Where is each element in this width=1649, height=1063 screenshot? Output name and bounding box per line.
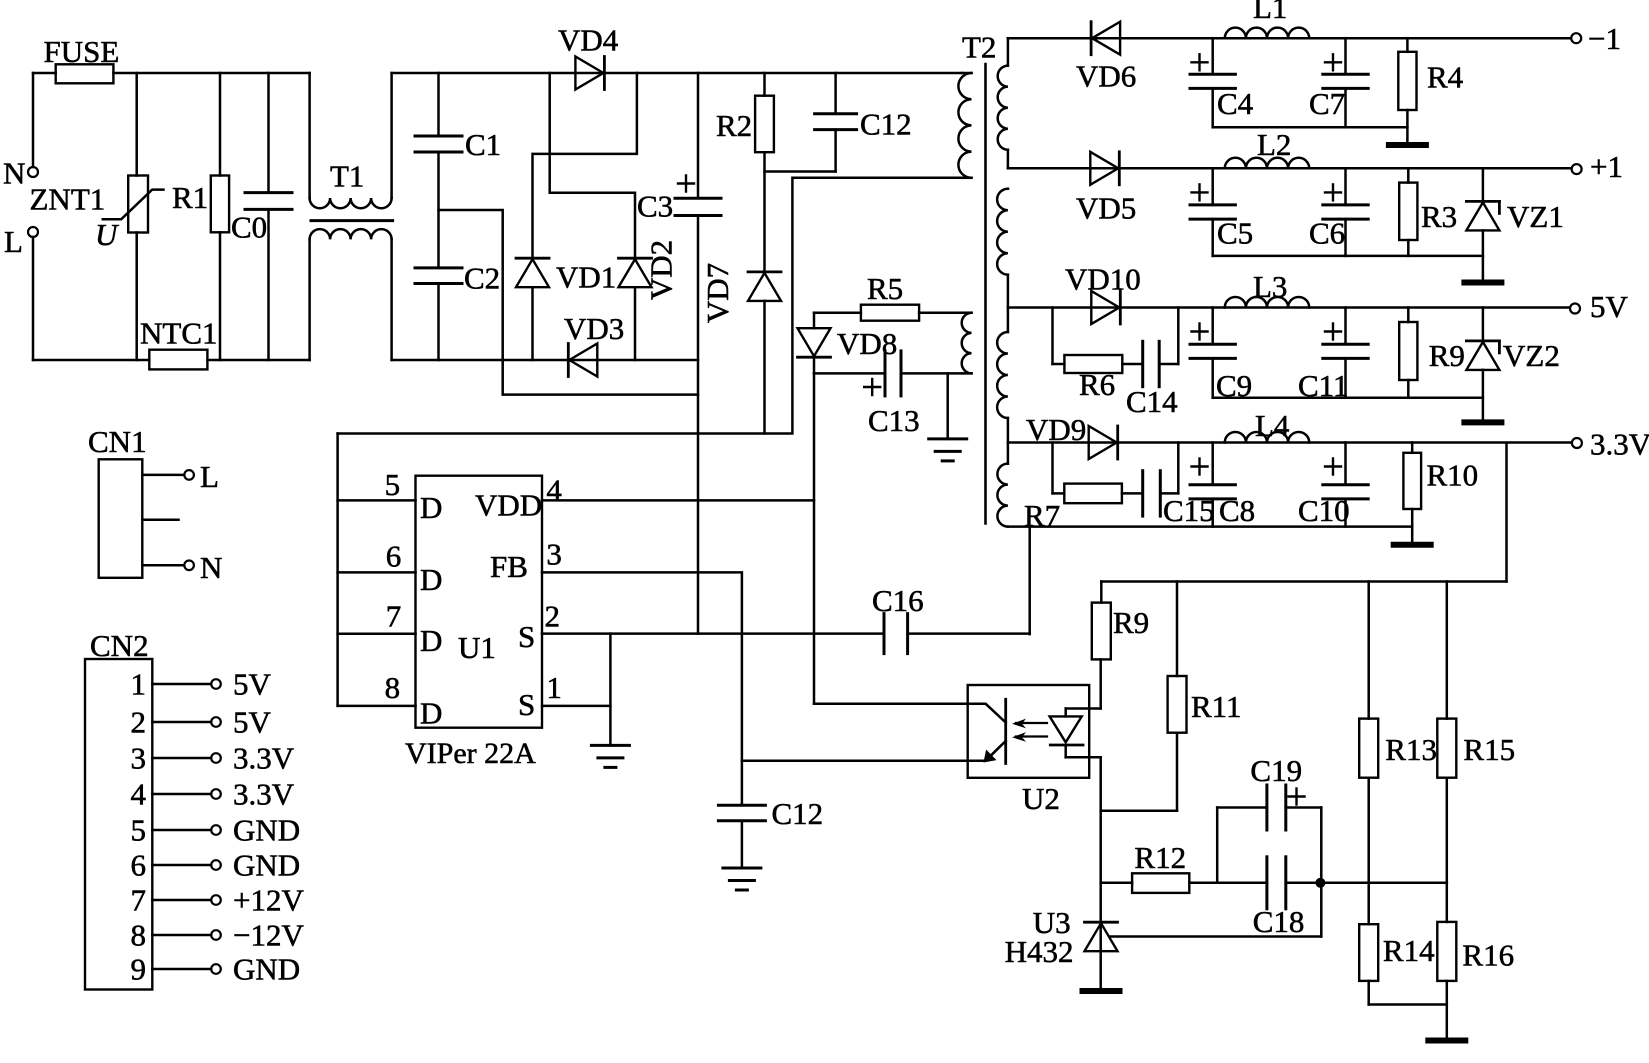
pin 3 label	[546, 537, 562, 572]
diode VD4	[558, 23, 619, 90]
svg-text:5V: 5V	[1590, 289, 1629, 324]
capacitor C12 (feedback filter)	[718, 796, 823, 868]
wire: snubber bottom	[765, 170, 836, 173]
IC U1 VIPer22A	[405, 476, 542, 770]
capacitor C2	[415, 261, 500, 361]
capacitor C11	[1298, 308, 1368, 404]
resistor R15	[1437, 582, 1515, 883]
svg-text:R5: R5	[867, 271, 903, 306]
svg-text:GND: GND	[233, 848, 300, 883]
svg-text:8: 8	[385, 670, 401, 705]
svg-text:R6: R6	[1079, 367, 1115, 402]
ground (row1)	[1389, 142, 1426, 148]
capacitor C8	[1190, 443, 1255, 529]
svg-text:R2: R2	[716, 108, 752, 143]
terminal L (AC input)	[4, 224, 38, 360]
svg-text:CN2: CN2	[90, 628, 149, 663]
resistor R2	[716, 73, 774, 272]
svg-text:VDD: VDD	[475, 488, 542, 523]
terminal +1 output	[1572, 149, 1623, 184]
svg-text:L: L	[200, 459, 219, 494]
svg-text:VD1: VD1	[556, 260, 616, 295]
diode VD10	[1065, 262, 1141, 325]
resistor R11	[1101, 582, 1242, 811]
wire: AC top rail	[33, 72, 310, 75]
svg-text:VD8: VD8	[837, 326, 897, 361]
wire: AC bottom rail	[33, 359, 310, 362]
shunt regulator U3 H432	[1005, 905, 1322, 969]
ground (aux winding)	[929, 373, 967, 461]
svg-text:N: N	[200, 550, 222, 585]
svg-text:T1: T1	[330, 159, 364, 194]
diode VD1	[516, 258, 616, 360]
optocoupler U2	[968, 685, 1101, 816]
transformer T2 primary winding	[958, 73, 971, 178]
svg-text:S: S	[518, 619, 535, 654]
diode VD2	[619, 240, 679, 360]
capacitor C7	[1309, 38, 1368, 127]
svg-text:C8: C8	[1219, 493, 1255, 528]
svg-text:VD2: VD2	[644, 240, 679, 300]
wire: row3 output rail	[1008, 306, 1570, 309]
ground (U1 source)	[591, 745, 629, 767]
svg-text:CN1: CN1	[88, 424, 147, 459]
svg-text:R11: R11	[1191, 689, 1242, 724]
transformer T2 core	[962, 30, 996, 524]
thermistor NTC1	[140, 316, 218, 370]
CN1 pin N	[142, 550, 222, 585]
node: feedback divider junction	[1315, 878, 1325, 888]
resistor R7	[1024, 443, 1122, 534]
svg-text:VZ1: VZ1	[1507, 199, 1564, 234]
svg-text:U1: U1	[458, 630, 496, 665]
wire: VD4 cathode to VD1 cathode	[533, 73, 637, 258]
svg-text:C16: C16	[872, 583, 924, 618]
terminal 3.3V output	[1572, 427, 1649, 462]
svg-text:R9: R9	[1429, 338, 1465, 373]
svg-text:R16: R16	[1462, 938, 1514, 973]
resistor R14	[1359, 883, 1447, 1005]
resistor R9 (optocoupler pull-up)	[1092, 582, 1149, 709]
svg-text:9: 9	[131, 952, 147, 987]
svg-text:C12: C12	[860, 107, 912, 142]
CN2 pin 8 (-12V)	[131, 918, 305, 953]
CN2 pin 5 (GND)	[131, 813, 301, 848]
svg-text:1: 1	[131, 667, 147, 702]
svg-text:FB: FB	[490, 549, 528, 584]
diode VD8	[798, 313, 898, 374]
wire: source (pin 1) to ground	[542, 634, 610, 746]
ground (R16)	[1428, 1038, 1465, 1044]
svg-text:VD7: VD7	[700, 263, 735, 323]
connector CN1	[88, 424, 147, 578]
svg-text:R1: R1	[172, 180, 208, 215]
resistor R4	[1398, 38, 1463, 145]
svg-text:C12: C12	[772, 796, 824, 831]
capacitor C19	[1217, 753, 1321, 937]
pin 5 label	[385, 467, 401, 502]
CN1 pin L	[142, 459, 219, 494]
wire: 3.3V sense tap	[1505, 443, 1508, 582]
wire: row3 bottom rail	[1213, 397, 1483, 400]
capacitor C10	[1298, 443, 1368, 529]
diode VD7	[700, 263, 781, 434]
inductor L3	[1225, 269, 1309, 308]
svg-text:7: 7	[131, 883, 147, 918]
svg-text:R13: R13	[1385, 732, 1437, 767]
CN2 pin 2 (5V)	[131, 705, 272, 740]
svg-text:3: 3	[131, 741, 147, 776]
svg-text:C14: C14	[1126, 384, 1178, 419]
resistor R12	[1101, 840, 1267, 893]
CN1 middle pin	[142, 519, 178, 522]
svg-text:VD10: VD10	[1065, 262, 1141, 297]
wire: row1 bottom rail	[1213, 126, 1408, 129]
diode VD9	[1026, 412, 1118, 459]
transformer T2 auxiliary winding	[962, 313, 972, 374]
svg-text:5V: 5V	[233, 705, 272, 740]
svg-text:N: N	[3, 155, 25, 190]
wire: drain bus (U1 D pins to transformer primary)	[338, 178, 962, 434]
wire: VD4 anode to VD2 cathode	[550, 73, 635, 258]
svg-text:VD3: VD3	[564, 311, 624, 346]
svg-text:U: U	[95, 217, 120, 252]
svg-text:C2: C2	[464, 261, 500, 296]
svg-text:GND: GND	[233, 952, 300, 987]
diode VD5	[1076, 152, 1136, 226]
pin 7 label	[386, 599, 402, 634]
zener diode VZ1	[1466, 168, 1563, 280]
svg-text:L1: L1	[1253, 0, 1287, 25]
terminal 5V output	[1570, 289, 1629, 324]
svg-text:NTC1: NTC1	[140, 316, 218, 351]
svg-text:4: 4	[546, 473, 562, 508]
svg-text:R4: R4	[1427, 60, 1464, 95]
wire: row2 bottom rail	[1213, 255, 1483, 258]
wire: secondary return to C16	[1028, 527, 1031, 635]
resistor R10	[1403, 443, 1478, 545]
resistor R6	[1053, 308, 1123, 403]
wire: 3.3V sense rail	[1101, 580, 1506, 583]
svg-text:C13: C13	[868, 403, 920, 438]
svg-text:R14: R14	[1383, 933, 1435, 968]
svg-text:VD6: VD6	[1076, 59, 1136, 94]
ground (row3)	[1464, 419, 1501, 425]
resistor R16	[1437, 883, 1514, 1041]
svg-text:VD9: VD9	[1026, 412, 1086, 447]
svg-text:C7: C7	[1309, 86, 1345, 121]
capacitor C12 (snubber)	[815, 73, 912, 172]
wire: FB (pin 3) to optocoupler and C12	[542, 572, 968, 805]
svg-text:5: 5	[131, 813, 147, 848]
wire: U2 collector input	[814, 703, 968, 706]
svg-text:D: D	[420, 623, 442, 658]
capacitor C5	[1190, 168, 1253, 256]
svg-text:R12: R12	[1134, 840, 1186, 875]
svg-text:GND: GND	[233, 813, 300, 848]
pin 6 label	[386, 539, 402, 574]
inductor L2	[1225, 127, 1309, 168]
wire: VDD (pin 4)	[542, 499, 814, 502]
capacitor C3	[637, 73, 721, 634]
capacitor C0	[231, 73, 292, 360]
svg-text:VZ2: VZ2	[1503, 338, 1560, 373]
svg-text:D: D	[420, 562, 442, 597]
svg-text:C10: C10	[1298, 493, 1350, 528]
wire: source (pin 2) line	[542, 632, 884, 635]
wire: row4 output rail	[1008, 441, 1572, 444]
capacitor C1	[415, 73, 501, 268]
ground (C12)	[723, 868, 761, 890]
transformer T2 secondary winding 2	[997, 189, 1008, 308]
svg-text:H432: H432	[1005, 934, 1074, 969]
svg-text:L: L	[4, 224, 23, 259]
capacitor C16	[872, 583, 1030, 654]
varistor ZNT1	[30, 73, 164, 360]
svg-text:C3: C3	[637, 189, 673, 224]
diode VD3	[564, 311, 624, 377]
svg-text:VD5: VD5	[1076, 191, 1136, 226]
svg-text:3: 3	[546, 537, 562, 572]
CN2 pin 9 (GND)	[131, 952, 301, 987]
svg-text:R3: R3	[1421, 199, 1457, 234]
wire: VDD feed (VD8 to U1 pin4 / U2)	[813, 373, 816, 703]
svg-text:FUSE: FUSE	[44, 34, 120, 69]
svg-text:C19: C19	[1250, 753, 1302, 788]
svg-text:4: 4	[131, 777, 147, 812]
resistor R3	[1399, 168, 1457, 256]
resistor R13	[1359, 582, 1437, 883]
wire: lower rectifier rail	[392, 359, 698, 362]
svg-text:C6: C6	[1309, 216, 1345, 251]
transformer T2 secondary winding 1	[998, 38, 1008, 168]
svg-text:U2: U2	[1022, 781, 1060, 816]
inductor L1	[1225, 0, 1309, 38]
svg-text:D: D	[420, 490, 442, 525]
terminal N (AC input)	[3, 73, 38, 190]
wire: row1 output rail	[1008, 37, 1571, 40]
terminal -1 output	[1571, 21, 1621, 56]
wire: rectified top rail	[392, 72, 962, 75]
resistor R1	[172, 73, 229, 360]
svg-text:+1: +1	[1590, 149, 1623, 184]
common-mode choke T1	[310, 73, 393, 360]
capacitor C4	[1190, 38, 1254, 127]
wire: row4 bottom rail	[1008, 525, 1412, 528]
svg-text:C5: C5	[1217, 216, 1253, 251]
svg-text:3.3V: 3.3V	[1590, 427, 1649, 462]
wire: C1/C2 midpoint tap to C3 bottom	[439, 210, 699, 395]
svg-text:8: 8	[131, 918, 147, 953]
capacitor C9	[1190, 308, 1252, 404]
ground (row2)	[1464, 280, 1501, 286]
svg-text:R10: R10	[1427, 458, 1479, 493]
resistor R9 (output bleeder)	[1399, 308, 1465, 398]
resistor R5	[814, 271, 962, 321]
svg-text:2: 2	[131, 705, 147, 740]
zener diode VZ2	[1466, 308, 1559, 421]
svg-text:−12V: −12V	[233, 918, 304, 953]
fuse FUSE	[44, 34, 120, 83]
svg-text:6: 6	[386, 539, 402, 574]
svg-text:5: 5	[385, 467, 401, 502]
svg-text:−1: −1	[1588, 21, 1621, 56]
svg-text:C4: C4	[1217, 86, 1254, 121]
ground (row4)	[1394, 542, 1431, 548]
wire: U1 drain pin bus	[338, 434, 416, 706]
svg-text:VIPer 22A: VIPer 22A	[405, 737, 536, 770]
svg-text:C0: C0	[231, 210, 267, 245]
svg-text:D: D	[420, 696, 442, 731]
svg-text:T2: T2	[962, 30, 996, 65]
inductor L4	[1225, 408, 1309, 443]
svg-text:C1: C1	[465, 127, 501, 162]
svg-text:VD4: VD4	[558, 23, 619, 58]
svg-text:7: 7	[386, 599, 402, 634]
svg-text:6: 6	[131, 848, 147, 883]
wire: VD8 cathode to aux winding return	[814, 372, 962, 375]
pin 2 label	[545, 599, 561, 634]
wire: row2 output rail	[1008, 167, 1572, 170]
svg-text:5V: 5V	[233, 667, 272, 702]
svg-text:R9: R9	[1113, 605, 1149, 640]
svg-text:L4: L4	[1255, 408, 1290, 443]
svg-text:2: 2	[545, 599, 561, 634]
ground (U3)	[1083, 988, 1120, 994]
capacitor C14	[1122, 308, 1178, 420]
CN2 pin 6 (GND)	[131, 848, 301, 883]
diode VD6	[1076, 22, 1136, 94]
svg-text:3.3V: 3.3V	[233, 741, 295, 776]
capacitor C6	[1309, 168, 1368, 256]
svg-text:ZNT1: ZNT1	[30, 182, 106, 217]
svg-text:+12V: +12V	[233, 883, 304, 918]
svg-text:3.3V: 3.3V	[233, 777, 295, 812]
svg-text:R15: R15	[1463, 732, 1515, 767]
pin 4 label	[546, 473, 562, 508]
CN2 pin 7 (+12V)	[131, 883, 305, 918]
transformer T2 secondary winding 4	[997, 443, 1008, 527]
svg-text:1: 1	[546, 670, 562, 705]
capacitor C15	[1122, 443, 1215, 529]
CN2 pin 3 (3.3V)	[131, 741, 295, 776]
CN2 pin 1 (5V)	[131, 667, 272, 702]
svg-text:L2: L2	[1257, 127, 1291, 162]
transformer T2 secondary winding 3	[997, 308, 1008, 443]
svg-text:C18: C18	[1253, 904, 1305, 939]
svg-text:L3: L3	[1253, 269, 1287, 304]
pin 1 label	[546, 670, 562, 705]
connector CN2	[85, 628, 152, 990]
capacitor C18	[1253, 857, 1447, 939]
svg-text:S: S	[518, 687, 535, 722]
pin 8 label	[385, 670, 401, 705]
capacitor C13	[864, 351, 919, 438]
CN2 pin 4 (3.3V)	[131, 777, 295, 812]
wire: U2 cathode to U3	[1099, 757, 1102, 990]
